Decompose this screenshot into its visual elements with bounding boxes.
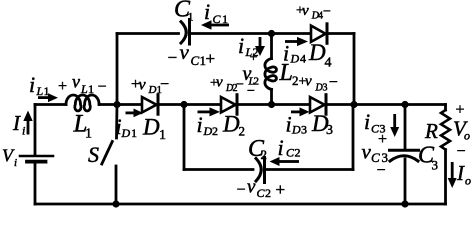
svg-text:C: C bbox=[191, 53, 200, 68]
svg-text:v: v bbox=[72, 72, 80, 92]
wire C2 branch right (up to node D) bbox=[352, 105, 355, 170]
node B junction dot (D1 / D2 / C2) bbox=[180, 101, 187, 108]
arrow i_C3 (down) bbox=[390, 114, 399, 137]
arrow i_D4 (right) bbox=[285, 37, 308, 46]
wire node T down to L2 bbox=[270, 34, 273, 59]
svg-text:−: − bbox=[457, 143, 466, 160]
diode D2 triangle bbox=[221, 97, 236, 113]
label I_i bbox=[12, 111, 25, 138]
svg-text:i: i bbox=[238, 33, 244, 58]
svg-text:D: D bbox=[222, 112, 240, 137]
svg-text:i: i bbox=[29, 72, 35, 97]
wire top rail C1 to node T bbox=[191, 32, 271, 35]
label I_o bbox=[456, 161, 471, 188]
svg-text:L: L bbox=[80, 82, 88, 96]
svg-text:i: i bbox=[22, 124, 25, 138]
label V_i bbox=[2, 146, 17, 170]
capacitor C1 curved plate bbox=[181, 22, 186, 43]
capacitor C3 curved plate bbox=[390, 156, 418, 161]
svg-text:v: v bbox=[362, 140, 372, 164]
svg-text:D: D bbox=[290, 52, 300, 66]
arrow i_L2 (down) bbox=[255, 37, 265, 56]
wire node C to D3 bbox=[272, 103, 311, 106]
svg-text:v: v bbox=[305, 74, 312, 90]
svg-text:1: 1 bbox=[222, 12, 228, 26]
wire D1 to node B bbox=[158, 103, 184, 106]
diode D3 triangle bbox=[310, 97, 325, 113]
label +v_D2- bbox=[210, 75, 244, 94]
capacitor C3 straight plate bbox=[390, 149, 419, 152]
battery Vi long plate bbox=[20, 155, 53, 158]
node D junction dot (D3 / D4 / C2 / output) bbox=[350, 101, 357, 108]
svg-text:−: − bbox=[329, 74, 338, 91]
current arrows (filled) bbox=[23, 20, 456, 188]
node G junction dot (switch on bottom rail) bbox=[112, 200, 119, 207]
svg-text:v: v bbox=[139, 77, 147, 94]
svg-text:2: 2 bbox=[265, 186, 271, 200]
wire left edge (top rail down to battery) bbox=[34, 105, 37, 155]
label -v_C2+ bbox=[237, 177, 286, 201]
svg-text:i: i bbox=[283, 41, 289, 66]
label i_C1 bbox=[204, 0, 228, 26]
svg-text:−: − bbox=[323, 4, 331, 19]
wire node A up to top rail bbox=[116, 34, 119, 105]
label i_D2 bbox=[197, 112, 219, 138]
wire C2 branch left (node B down) bbox=[183, 105, 186, 170]
svg-text:i: i bbox=[278, 135, 284, 160]
svg-text:i: i bbox=[286, 112, 292, 137]
svg-text:v: v bbox=[216, 75, 223, 91]
switch S blade (open) bbox=[102, 142, 113, 165]
svg-text:2: 2 bbox=[239, 124, 246, 139]
wire node D to node E bbox=[354, 103, 405, 106]
svg-text:−: − bbox=[377, 162, 386, 179]
svg-text:D: D bbox=[148, 84, 157, 96]
wire D4 branch down to node D bbox=[353, 34, 356, 105]
svg-text:1: 1 bbox=[131, 126, 137, 140]
inductor L1 bbox=[66, 95, 99, 111]
label V_o (+ above, - below) bbox=[453, 102, 470, 161]
label -v_C1+ bbox=[168, 40, 216, 68]
label i_L1 bbox=[29, 72, 50, 98]
svg-text:+: + bbox=[378, 131, 387, 148]
svg-text:2: 2 bbox=[212, 124, 218, 138]
svg-text:+: + bbox=[58, 78, 67, 95]
battery Vi short thick plate bbox=[27, 160, 46, 164]
label L1 bbox=[73, 111, 93, 142]
svg-text:2: 2 bbox=[261, 147, 268, 162]
diode D1 cathode bar bbox=[157, 95, 160, 115]
svg-text:1: 1 bbox=[159, 128, 166, 143]
svg-text:o: o bbox=[465, 174, 471, 188]
arrow i_L1 bbox=[38, 93, 58, 102]
node T junction dot (C1 / L2 / D4) bbox=[268, 30, 275, 37]
label C2 bbox=[248, 136, 267, 162]
arrow i_C1 (left) bbox=[201, 20, 229, 29]
node C junction dot (D2 / L2 / D3) bbox=[268, 101, 275, 108]
label i_L2 bbox=[238, 33, 259, 59]
arrow i_D2 (right) bbox=[198, 107, 221, 116]
label i_D3 bbox=[286, 112, 308, 137]
svg-text:−: − bbox=[168, 48, 178, 67]
svg-text:3: 3 bbox=[301, 123, 307, 137]
wire right edge down to resistor bbox=[444, 105, 447, 111]
label i_D4 bbox=[283, 41, 306, 66]
wire main rail left segment (Vi top to L1) bbox=[35, 103, 66, 106]
svg-text:i: i bbox=[197, 112, 203, 137]
label i_D1 bbox=[116, 114, 138, 140]
wire resistor bottom to bottom-right corner bbox=[444, 150, 447, 204]
wire C2 branch bottom left bbox=[184, 168, 253, 171]
wire top rail to C1 left plate bbox=[117, 32, 179, 35]
svg-text:S: S bbox=[88, 142, 99, 167]
wire node B to D2 bbox=[184, 103, 221, 106]
svg-text:−: − bbox=[98, 79, 107, 96]
svg-text:R: R bbox=[424, 119, 438, 143]
svg-text:C: C bbox=[213, 12, 222, 26]
wire top rail node T to D4 bbox=[272, 32, 312, 35]
wire D2 to node C bbox=[237, 103, 272, 106]
svg-text:+: + bbox=[206, 49, 216, 68]
wire bottom rail bbox=[35, 203, 446, 206]
wire C3 branch bottom bbox=[404, 159, 407, 204]
label C1 bbox=[174, 0, 194, 24]
wire main rail L1 to node A bbox=[99, 103, 117, 106]
svg-text:1: 1 bbox=[85, 127, 92, 142]
svg-text:−: − bbox=[247, 84, 255, 99]
label C3 bbox=[418, 143, 438, 173]
capacitor C2 curved plate bbox=[256, 159, 261, 182]
label +v_L2- (vertical) bbox=[243, 51, 260, 100]
svg-text:o: o bbox=[464, 129, 470, 143]
diode D4 cathode bar bbox=[326, 24, 329, 44]
svg-text:D: D bbox=[308, 40, 326, 65]
label D1 bbox=[142, 115, 166, 144]
svg-text:1: 1 bbox=[188, 10, 194, 24]
svg-text:i: i bbox=[364, 109, 370, 134]
label i_C3 bbox=[364, 109, 386, 136]
label D3 bbox=[311, 111, 333, 138]
wire L2 bottom to node C bbox=[270, 89, 273, 104]
svg-text:3: 3 bbox=[326, 123, 333, 138]
svg-text:1: 1 bbox=[88, 82, 94, 96]
switch S wire from node A bbox=[115, 105, 118, 139]
wire left edge (battery bottom to bottom rail) bbox=[34, 164, 37, 205]
diode D2 cathode bar bbox=[236, 95, 239, 115]
svg-text:3: 3 bbox=[432, 158, 439, 173]
wire D3 to node D bbox=[326, 103, 354, 106]
svg-text:4: 4 bbox=[325, 56, 332, 71]
label v_C3 (+ above, - below) bbox=[362, 131, 389, 179]
switch S bottom wire to bottom rail bbox=[115, 166, 118, 204]
wire C3 branch top (node E down) bbox=[404, 105, 407, 151]
svg-text:v: v bbox=[180, 40, 190, 64]
diode D1 triangle bbox=[142, 97, 157, 113]
svg-text:2: 2 bbox=[295, 146, 301, 160]
label +v_L1- bbox=[58, 72, 107, 97]
wire D4 cathode to top-right corner bbox=[327, 32, 354, 35]
svg-text:4: 4 bbox=[300, 52, 306, 66]
node A junction dot (L1 / C1 / switch / D1) bbox=[113, 101, 120, 108]
svg-text:−: − bbox=[236, 78, 244, 93]
diode D3 cathode bar bbox=[325, 95, 328, 115]
svg-text:D: D bbox=[142, 115, 160, 140]
resistor R zigzag bbox=[441, 110, 450, 150]
label +v_D4- bbox=[296, 3, 331, 21]
svg-text:1: 1 bbox=[44, 84, 50, 98]
label D4 bbox=[308, 40, 332, 71]
arrow i_D1 (right) bbox=[126, 109, 144, 118]
wire main rail node A to D1 bbox=[117, 103, 142, 106]
svg-text:I: I bbox=[456, 161, 465, 185]
svg-text:−: − bbox=[160, 76, 169, 93]
arrow i_C2 (left) bbox=[270, 157, 300, 166]
svg-text:D: D bbox=[203, 124, 213, 138]
svg-text:3: 3 bbox=[323, 83, 328, 94]
node E junction dot (C3 top) bbox=[401, 101, 408, 108]
svg-text:i: i bbox=[14, 157, 17, 169]
arrow i_D3 (right) bbox=[291, 107, 310, 116]
svg-text:L: L bbox=[36, 84, 44, 98]
arrow I_i (up) bbox=[23, 111, 32, 135]
wire C2 branch bottom right bbox=[266, 168, 353, 171]
diode D4 triangle bbox=[311, 26, 326, 42]
label +v_D1- bbox=[131, 76, 169, 96]
svg-text:i: i bbox=[204, 0, 210, 24]
svg-text:+: + bbox=[276, 180, 286, 199]
arrow I_o (down) bbox=[448, 162, 457, 188]
label D2 bbox=[222, 112, 245, 139]
wire node E to top-right corner bbox=[405, 103, 446, 106]
svg-text:v: v bbox=[302, 3, 309, 19]
inductor L2 bbox=[265, 59, 277, 90]
label S bbox=[88, 142, 99, 167]
capacitor C1 straight plate bbox=[188, 20, 191, 45]
svg-text:D: D bbox=[291, 123, 301, 137]
svg-text:v: v bbox=[247, 177, 256, 198]
svg-text:I: I bbox=[12, 111, 21, 135]
label L2 bbox=[279, 60, 299, 88]
node F junction dot (C3 bottom) bbox=[401, 200, 408, 207]
label R bbox=[424, 119, 438, 143]
capacitor C2 straight plate bbox=[263, 158, 266, 183]
label i_C2 bbox=[278, 135, 301, 160]
svg-text:−: − bbox=[237, 182, 246, 199]
svg-text:D: D bbox=[121, 126, 131, 140]
label +v_D3- bbox=[299, 74, 338, 94]
